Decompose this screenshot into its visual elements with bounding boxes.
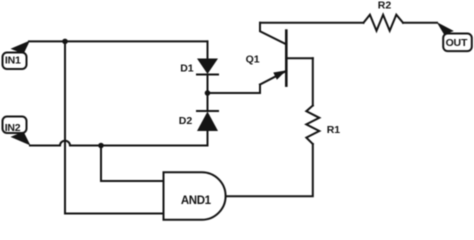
svg-text:R2: R2 xyxy=(378,0,392,12)
wire IN1 horizontal xyxy=(29,40,208,42)
svg-text:Q1: Q1 xyxy=(246,54,260,66)
diode D1 xyxy=(197,41,218,93)
net tag OUT xyxy=(437,22,472,51)
diode D2 xyxy=(197,93,218,146)
junction dot diode common node xyxy=(205,90,211,96)
svg-text:D2: D2 xyxy=(179,115,193,127)
wire IN2 horizontal with hop over IN1 branch xyxy=(30,141,208,146)
svg-text:IN1: IN1 xyxy=(5,55,21,67)
wire R2 to OUT xyxy=(403,22,437,24)
svg-text:R1: R1 xyxy=(327,124,341,136)
junction dot IN1 branch xyxy=(62,39,68,45)
wire Q1 base to R1 top xyxy=(312,58,314,105)
resistor R2 xyxy=(364,15,404,31)
svg-text:OUT: OUT xyxy=(446,37,468,49)
wire IN2 branch down to AND1 upper input xyxy=(101,146,164,182)
junction dot IN2 branch xyxy=(98,143,104,149)
net tag IN2 xyxy=(3,117,31,146)
wire top rail collector to R2 xyxy=(260,22,364,24)
wire diode node to Q1 emitter xyxy=(208,85,261,94)
wire IN1 branch down to AND1 lower input xyxy=(65,41,164,213)
wire R1 bottom to AND1 output xyxy=(226,144,313,196)
svg-text:AND1: AND1 xyxy=(181,195,212,207)
resistor R1 xyxy=(306,106,319,145)
transistor Q1 xyxy=(260,23,313,86)
net tag IN1 xyxy=(3,41,31,70)
and gate AND1 xyxy=(164,172,226,220)
svg-text:D1: D1 xyxy=(180,63,194,75)
svg-text:IN2: IN2 xyxy=(5,122,21,134)
